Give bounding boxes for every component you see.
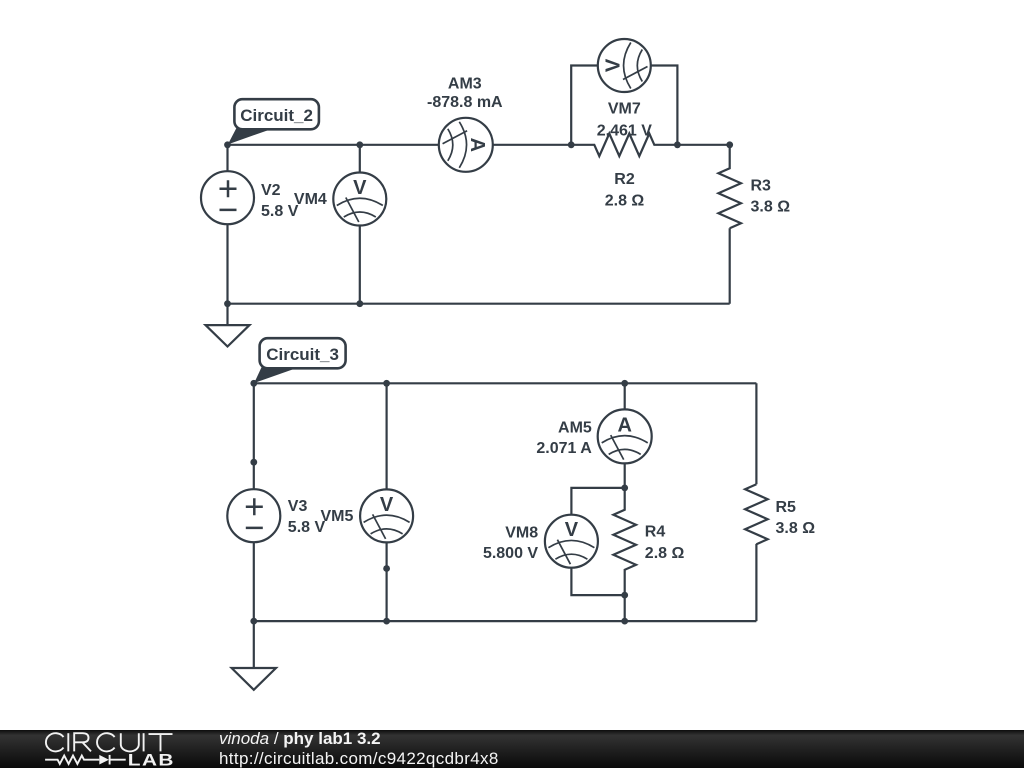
svg-text:V: V bbox=[380, 494, 394, 516]
svg-text:R4: R4 bbox=[645, 524, 666, 541]
resistor R3 bbox=[718, 145, 741, 229]
svg-text:3.8 Ω: 3.8 Ω bbox=[751, 199, 791, 216]
watermark url line bbox=[219, 749, 499, 769]
watermark title line bbox=[219, 729, 381, 749]
svg-text:A: A bbox=[466, 138, 488, 152]
svg-text:2.8 Ω: 2.8 Ω bbox=[645, 545, 685, 562]
ground: circuit 2 bbox=[206, 304, 250, 347]
logo CIRCUIT lettering bbox=[46, 733, 173, 751]
wire: VM8 loop bottom bbox=[571, 568, 624, 595]
wire: VM4 branch upper bbox=[359, 145, 361, 173]
wire: VM7 loop right riser bbox=[651, 66, 678, 145]
svg-text:A: A bbox=[617, 414, 631, 436]
ground: circuit 3 bbox=[232, 621, 276, 690]
svg-text:V: V bbox=[602, 58, 624, 72]
wire: R5 branch lower bbox=[755, 544, 757, 621]
text label R4 value bbox=[645, 524, 685, 562]
svg-text:VM5: VM5 bbox=[320, 508, 353, 525]
wire: circuit 3 bottom rail bbox=[254, 620, 757, 622]
text label VM8 value bbox=[483, 525, 538, 563]
svg-text:VM8: VM8 bbox=[505, 525, 538, 542]
wire: VM5 branch lower bbox=[386, 542, 388, 621]
svg-text:V2: V2 bbox=[261, 182, 281, 199]
ammeter AM3 bbox=[439, 118, 493, 172]
label flag Circuit_2 bbox=[228, 99, 319, 144]
voltmeter VM4 bbox=[333, 173, 386, 226]
wire: circuit 2 top rail right segment bbox=[677, 144, 729, 146]
node dots circuit 2 bbox=[224, 141, 733, 307]
resistor R5 bbox=[745, 484, 768, 544]
text label AM3 value bbox=[427, 76, 503, 112]
wire: R5 branch upper bbox=[755, 383, 757, 484]
svg-text:-878.8 mA: -878.8 mA bbox=[427, 94, 503, 111]
wire: circuit 2 top rail left segment bbox=[228, 144, 439, 146]
svg-text:2.8 Ω: 2.8 Ω bbox=[605, 193, 645, 210]
svg-text:V3: V3 bbox=[288, 498, 308, 515]
wire: VM5 branch upper bbox=[386, 383, 388, 489]
svg-text:VM7: VM7 bbox=[608, 101, 641, 118]
svg-text:VM4: VM4 bbox=[294, 191, 327, 208]
wire: AM5 branch upper bbox=[624, 383, 626, 409]
wire: circuit 3 left rail lower bbox=[253, 542, 255, 621]
text label R2 value bbox=[605, 171, 645, 210]
logo resistor-diode art bbox=[45, 755, 126, 765]
svg-text:AM3: AM3 bbox=[448, 76, 482, 93]
label flag Circuit_3 bbox=[254, 338, 345, 383]
wire: circuit 2 left rail upper bbox=[226, 145, 228, 171]
wire: VM7 loop left riser bbox=[571, 66, 598, 145]
svg-text:Circuit_3: Circuit_3 bbox=[266, 345, 339, 364]
watermark bar bbox=[0, 730, 1024, 768]
resistor R2 bbox=[571, 134, 677, 157]
svg-text:R2: R2 bbox=[614, 171, 635, 188]
text label V2 value bbox=[261, 182, 299, 220]
wire: circuit 2 bottom rail bbox=[228, 303, 730, 305]
wire: circuit 2 left rail lower bbox=[226, 224, 228, 304]
text label VM7 value bbox=[597, 101, 652, 140]
voltmeter VM8 bbox=[545, 515, 598, 568]
voltmeter VM7 bbox=[598, 39, 651, 92]
wire: R3 lower lead to bottom rail bbox=[729, 228, 731, 303]
voltage source V3 bbox=[227, 489, 280, 542]
wire: R4 bottom to bottom rail bbox=[624, 595, 626, 621]
svg-text:R5: R5 bbox=[776, 499, 797, 516]
svg-text:2.071 A: 2.071 A bbox=[536, 440, 592, 457]
text label V3 value bbox=[288, 498, 326, 536]
wire: circuit 3 left rail upper bbox=[253, 383, 255, 489]
svg-text:V: V bbox=[353, 177, 367, 199]
svg-text:R3: R3 bbox=[751, 178, 772, 195]
node dots circuit 3 bbox=[250, 380, 628, 625]
wire: VM4 branch lower bbox=[359, 226, 361, 304]
wire: circuit 3 top rail bbox=[254, 382, 757, 384]
voltage source V2 bbox=[201, 171, 254, 224]
svg-text:LAB: LAB bbox=[128, 751, 175, 768]
voltmeter VM5 bbox=[360, 489, 413, 542]
wire: VM8 loop top bbox=[571, 488, 624, 515]
wire: AM5 to R4 node bbox=[624, 463, 626, 488]
text label AM5 value bbox=[536, 420, 592, 458]
svg-text:Circuit_2: Circuit_2 bbox=[240, 106, 313, 125]
svg-text:V: V bbox=[565, 519, 579, 541]
svg-text:AM5: AM5 bbox=[558, 420, 592, 437]
svg-text:2.461 V: 2.461 V bbox=[597, 123, 652, 140]
svg-text:5.800 V: 5.800 V bbox=[483, 545, 538, 562]
text label R3 value bbox=[751, 178, 791, 216]
svg-text:3.8 Ω: 3.8 Ω bbox=[776, 520, 816, 537]
resistor R4 bbox=[613, 488, 636, 594]
wire: circuit 2 top rail middle segment bbox=[493, 144, 571, 146]
ammeter AM5 bbox=[598, 409, 652, 463]
text label R5 value bbox=[776, 499, 816, 537]
